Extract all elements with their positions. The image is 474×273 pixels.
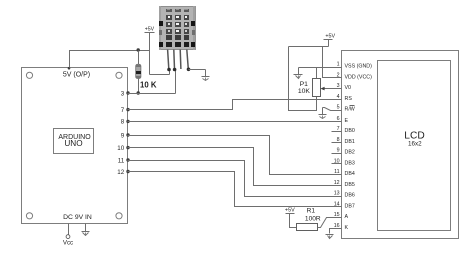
svg-text:9: 9 [337, 148, 340, 154]
svg-text:4: 4 [337, 94, 340, 100]
svg-text:10: 10 [117, 145, 124, 152]
svg-text:100R: 100R [305, 215, 321, 222]
svg-text:10K: 10K [298, 88, 311, 95]
svg-text:DB3: DB3 [345, 160, 355, 166]
svg-text:Vcc: Vcc [63, 239, 73, 246]
svg-text:5: 5 [337, 105, 340, 111]
svg-text:R1: R1 [307, 207, 316, 214]
svg-text:+5V: +5V [285, 207, 295, 213]
svg-text:A: A [345, 214, 349, 220]
svg-text:P1: P1 [300, 81, 309, 88]
svg-text:UNO: UNO [64, 139, 82, 148]
svg-text:16x2: 16x2 [408, 140, 422, 147]
svg-text:5V (O/P): 5V (O/P) [63, 72, 90, 79]
svg-text:8: 8 [337, 137, 340, 143]
svg-text:DB7: DB7 [345, 203, 355, 209]
svg-text:7: 7 [121, 107, 125, 114]
svg-text:8: 8 [121, 119, 125, 126]
svg-text:+5V: +5V [145, 27, 155, 33]
svg-text:7: 7 [337, 126, 340, 132]
svg-text:RS: RS [345, 96, 353, 102]
svg-text:12: 12 [117, 169, 124, 176]
svg-text:9: 9 [121, 132, 125, 139]
svg-text:V0: V0 [345, 85, 352, 91]
svg-text:11: 11 [118, 157, 125, 164]
svg-text:10 K: 10 K [140, 81, 157, 90]
svg-text:DB2: DB2 [345, 150, 355, 156]
svg-text:DC 9V IN: DC 9V IN [63, 214, 92, 221]
svg-text:VSS (GND): VSS (GND) [345, 64, 373, 70]
svg-text:DB5: DB5 [345, 182, 355, 188]
svg-text:14: 14 [334, 201, 340, 207]
svg-text:6: 6 [337, 116, 340, 122]
svg-text:DB6: DB6 [345, 193, 355, 199]
svg-text:DB1: DB1 [345, 139, 355, 145]
svg-text:DB0: DB0 [345, 128, 355, 134]
svg-text:R/W: R/W [345, 107, 355, 113]
svg-text:+5V: +5V [325, 34, 335, 40]
svg-text:12: 12 [334, 180, 340, 186]
svg-text:13: 13 [334, 191, 340, 197]
svg-text:VDD (VCC): VDD (VCC) [345, 74, 373, 80]
svg-text:DB4: DB4 [345, 171, 355, 177]
svg-text:K: K [345, 225, 349, 231]
svg-text:3: 3 [121, 90, 125, 97]
svg-text:11: 11 [334, 169, 340, 175]
svg-text:10: 10 [334, 158, 340, 164]
svg-text:1: 1 [337, 62, 340, 68]
svg-text:E: E [345, 118, 349, 124]
